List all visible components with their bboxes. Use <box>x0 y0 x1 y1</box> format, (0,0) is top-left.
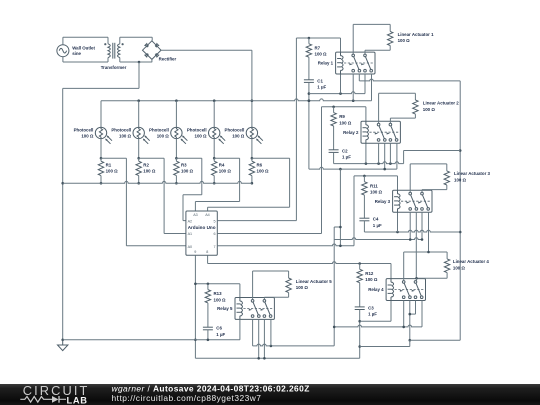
resistor Linear Actuator 1 <box>388 31 393 45</box>
wire c2 <box>415 212 417 278</box>
wire to right rail bottom <box>410 339 460 341</box>
svg-text:A0: A0 <box>188 245 193 249</box>
relay RLY1 <box>336 52 375 74</box>
junction <box>332 106 335 109</box>
wire A1 sense <box>163 158 165 233</box>
wire <box>139 157 164 159</box>
svg-text:100 Ω: 100 Ω <box>398 38 411 43</box>
svg-text:Photocell: Photocell <box>187 128 207 133</box>
wire <box>194 202 196 212</box>
wire coil5 top <box>239 284 241 298</box>
wire <box>289 158 291 207</box>
resistor R9 <box>331 113 336 126</box>
junction <box>251 99 254 102</box>
wire <box>352 24 354 54</box>
wire c3 <box>389 143 391 163</box>
wire <box>417 277 448 279</box>
svg-text:Relay 1: Relay 1 <box>318 61 334 66</box>
relay actuation link <box>344 62 374 64</box>
junction <box>175 182 178 185</box>
relay switch 1 <box>377 123 380 126</box>
wire <box>63 87 139 89</box>
relay switch 2 <box>263 300 266 303</box>
svg-text:Linear Actuator 2: Linear Actuator 2 <box>423 101 460 106</box>
wire <box>253 270 289 272</box>
junction <box>389 162 392 165</box>
wire <box>334 325 422 327</box>
junction <box>213 99 216 102</box>
svg-text:Arduino Uno: Arduino Uno <box>188 225 216 230</box>
svg-text:6: 6 <box>214 232 216 236</box>
junction <box>194 339 197 342</box>
svg-text:9: 9 <box>194 250 196 254</box>
svg-text:100 Ω: 100 Ω <box>219 169 232 174</box>
wire <box>416 278 418 280</box>
relay coil <box>365 121 367 125</box>
wire pin5 rail <box>295 38 297 221</box>
junction <box>358 262 361 265</box>
wire pin9 / relay5 left rail <box>194 255 196 358</box>
wire <box>107 37 109 44</box>
wire relay3 top rail <box>354 175 398 177</box>
wire c1 row <box>253 344 335 346</box>
wire <box>183 220 186 222</box>
junction <box>339 168 342 171</box>
wire coil4 top <box>390 264 392 279</box>
wire A0 sense <box>125 158 127 246</box>
wire <box>101 99 372 101</box>
wire <box>63 339 240 341</box>
wire <box>195 201 239 203</box>
junction <box>137 99 140 102</box>
wire <box>334 238 422 240</box>
wire pin7 <box>217 244 354 246</box>
wire <box>410 163 447 165</box>
svg-text:100 Ω: 100 Ω <box>157 134 170 139</box>
junction <box>137 182 140 185</box>
wire c2 <box>409 301 411 341</box>
relay actuation link <box>243 307 273 309</box>
wire <box>63 181 252 183</box>
wire <box>151 59 153 62</box>
resistor Linear Actuator 5 <box>286 278 291 293</box>
resistor R6 <box>249 161 254 175</box>
wire relay4 bottom rail <box>360 320 391 322</box>
junction <box>270 345 273 348</box>
wire <box>175 139 177 159</box>
wire c3 <box>415 301 417 315</box>
svg-text:Relay 3: Relay 3 <box>375 199 391 204</box>
junction <box>377 162 380 165</box>
junction <box>257 357 260 360</box>
wire <box>100 139 102 159</box>
wire <box>422 189 447 191</box>
wire <box>208 206 290 208</box>
wire coil1 top <box>340 38 342 52</box>
svg-text:R3: R3 <box>181 162 187 167</box>
svg-text:Photocell: Photocell <box>74 128 94 133</box>
wire <box>100 101 102 128</box>
wire <box>252 157 290 159</box>
svg-text:Linear Actuator 1: Linear Actuator 1 <box>398 32 435 37</box>
wire c1 <box>352 74 354 101</box>
wire jog <box>334 226 340 228</box>
junction <box>308 92 311 95</box>
svg-text:100 Ω: 100 Ω <box>181 169 194 174</box>
wire <box>63 61 108 63</box>
svg-text:Transformer: Transformer <box>101 65 127 70</box>
relay switch 2 <box>364 54 367 57</box>
wire to right rail <box>404 150 461 152</box>
svg-text:100 Ω: 100 Ω <box>143 169 156 174</box>
wire <box>213 139 215 159</box>
resistor R7 <box>306 44 311 57</box>
svg-text:Rectifier: Rectifier <box>159 57 177 62</box>
svg-text:100 Ω: 100 Ω <box>81 134 94 139</box>
wire coil3 top <box>397 176 399 190</box>
junction <box>459 231 462 234</box>
svg-text:sine: sine <box>72 51 81 56</box>
wire <box>363 195 365 218</box>
svg-text:R12: R12 <box>365 271 374 276</box>
svg-text:100 Ω: 100 Ω <box>119 134 132 139</box>
junction <box>409 339 412 342</box>
svg-text:R11: R11 <box>370 183 378 188</box>
junction <box>308 99 311 102</box>
relay actuation link <box>395 289 425 291</box>
wire c4 <box>371 74 373 101</box>
junction <box>339 245 342 248</box>
node <box>138 61 141 64</box>
wire <box>390 117 415 119</box>
junction <box>365 162 368 165</box>
junction <box>61 339 64 342</box>
wire coil2 top <box>365 107 367 122</box>
junction <box>363 175 366 178</box>
wire <box>363 221 365 232</box>
capacitor C3 <box>355 306 365 308</box>
wire <box>175 101 177 128</box>
junction <box>61 182 64 185</box>
resistor Linear Actuator 2 <box>413 100 418 114</box>
svg-text:C6: C6 <box>216 326 222 331</box>
wire c4 <box>428 212 430 252</box>
resistor R11 <box>362 182 367 195</box>
svg-text:100 Ω: 100 Ω <box>423 107 436 112</box>
wire right rail <box>459 81 461 340</box>
relay actuation link <box>369 131 399 133</box>
relay RLY2 <box>361 121 400 143</box>
svg-text:A4: A4 <box>205 213 210 217</box>
wire <box>389 24 391 31</box>
relay coil <box>340 52 342 56</box>
wire c2 <box>358 74 360 81</box>
wire <box>213 158 215 161</box>
wire <box>333 152 335 163</box>
relay switch 2 <box>389 123 392 126</box>
wire <box>62 37 64 45</box>
wire c2 to right rail <box>359 79 460 81</box>
wire <box>333 126 335 150</box>
wire <box>389 46 391 51</box>
svg-text:Wall Outlet: Wall Outlet <box>72 45 95 50</box>
junction <box>402 326 405 329</box>
wire <box>62 57 64 62</box>
resistor Linear Actuator 4 <box>444 259 449 273</box>
wire <box>138 101 140 128</box>
voltage source V1 Wall Outlet sine <box>57 45 69 57</box>
svg-text:100 Ω: 100 Ω <box>296 285 309 290</box>
svg-text:Relay 2: Relay 2 <box>343 130 359 135</box>
svg-text:R9: R9 <box>339 114 345 119</box>
svg-text:Photocell: Photocell <box>225 128 245 133</box>
wire c4 <box>421 301 423 327</box>
wire <box>100 176 102 184</box>
wire pin8 <box>207 255 209 263</box>
wire chain down <box>359 310 361 359</box>
wire mid supply rail <box>333 227 335 346</box>
wire <box>410 313 416 315</box>
wire <box>446 252 448 259</box>
svg-text:1 µF: 1 µF <box>216 332 225 337</box>
junction <box>409 238 412 241</box>
svg-text:Relay 5: Relay 5 <box>217 306 233 311</box>
junction <box>251 182 254 185</box>
wire pin6 <box>217 233 321 235</box>
capacitor C6 <box>203 326 213 328</box>
wire <box>107 58 109 62</box>
wire c3 <box>421 212 423 239</box>
svg-text:100 Ω: 100 Ω <box>315 52 328 57</box>
junction <box>358 320 361 323</box>
svg-text:R6: R6 <box>257 162 263 167</box>
junction <box>333 326 336 329</box>
wire <box>360 346 410 348</box>
wire <box>120 61 152 63</box>
junction <box>459 149 462 152</box>
svg-text:5: 5 <box>214 219 216 223</box>
wire pin6 rail <box>321 107 323 234</box>
wire relay1 top rail <box>296 37 340 39</box>
wire <box>100 158 102 161</box>
wire <box>389 118 391 123</box>
wire <box>409 164 411 192</box>
wire <box>446 185 448 190</box>
junction <box>358 345 361 348</box>
photocell PC2 <box>133 127 144 138</box>
svg-text:C2: C2 <box>342 148 348 153</box>
wire <box>414 114 416 118</box>
photocell PC1 <box>95 127 106 138</box>
wire <box>207 330 209 340</box>
junction <box>396 231 399 234</box>
wire <box>207 207 209 211</box>
wire <box>161 49 252 51</box>
transformer T1 <box>108 44 110 58</box>
svg-text:100 Ω: 100 Ω <box>214 297 227 302</box>
capacitor C1 <box>304 79 314 81</box>
svg-text:R7: R7 <box>315 45 321 50</box>
junction <box>383 168 386 171</box>
wire pin8 rail relay4 top <box>208 262 391 264</box>
capacitor C4 <box>359 217 369 219</box>
wire <box>404 251 447 253</box>
wire c4 <box>270 319 272 346</box>
wire <box>359 264 361 270</box>
svg-text:R13: R13 <box>214 291 223 296</box>
wire <box>126 245 185 247</box>
relay switch 2 <box>421 192 424 195</box>
wire <box>213 176 215 184</box>
wire <box>263 297 265 299</box>
wire c1 <box>403 301 405 327</box>
svg-text:1 µF: 1 µF <box>368 312 377 317</box>
relay RLY4 <box>386 279 425 301</box>
capacitor C2 <box>329 149 339 151</box>
wire coil5 bottom <box>239 319 241 339</box>
svg-text:A2: A2 <box>188 219 193 223</box>
svg-text:C1: C1 <box>317 78 323 83</box>
wire c4 <box>396 143 398 169</box>
wire c1 <box>409 212 411 239</box>
node cell5 <box>251 157 254 160</box>
wire <box>175 158 177 161</box>
wire relay5 top rail <box>195 283 240 285</box>
photocell PC4 <box>209 127 220 138</box>
svg-text:1 µF: 1 µF <box>342 155 351 160</box>
wire <box>308 57 310 80</box>
resistor R1 <box>98 161 103 175</box>
wire riser <box>409 340 411 346</box>
relay actuation link <box>401 200 431 202</box>
wire <box>138 139 140 159</box>
junction <box>352 99 355 102</box>
rectifier D1 bridge <box>143 41 162 60</box>
wire <box>207 284 209 290</box>
wire <box>175 176 177 184</box>
svg-text:100 Ω: 100 Ω <box>454 177 467 182</box>
wire <box>63 36 108 38</box>
svg-text:100 Ω: 100 Ω <box>370 190 383 195</box>
resistor R4 <box>212 161 217 175</box>
relay coil <box>239 298 241 302</box>
resistor R2 <box>136 161 141 175</box>
junction <box>213 182 216 185</box>
junction <box>421 238 424 241</box>
wire <box>182 195 184 221</box>
resistor Linear Actuator 3 <box>444 171 449 185</box>
ground symbol GND <box>58 340 68 351</box>
wire c2 <box>384 143 386 169</box>
wire <box>251 139 253 159</box>
wire <box>119 58 121 62</box>
wire <box>164 233 186 235</box>
wire <box>176 157 201 159</box>
wire coil3 bottom <box>397 212 399 232</box>
svg-text:C4: C4 <box>373 217 379 222</box>
relay RLY3 <box>393 190 432 212</box>
wire <box>138 176 140 184</box>
wire <box>414 93 416 100</box>
junction <box>263 357 266 360</box>
svg-text:LAB: LAB <box>67 395 88 405</box>
wire relay2 bottom rail <box>334 162 404 164</box>
wire c1 <box>252 319 254 346</box>
svg-text:Relay 4: Relay 4 <box>368 287 384 292</box>
junction <box>175 99 178 102</box>
relay switch 1 <box>402 281 405 284</box>
wire <box>403 252 405 281</box>
svg-text:Linear Actuator 3: Linear Actuator 3 <box>454 171 491 176</box>
junction <box>207 339 210 342</box>
wire jog up <box>403 151 405 164</box>
wire <box>207 303 209 327</box>
svg-text:Linear Actuator 5: Linear Actuator 5 <box>296 279 333 284</box>
svg-text:1 µF: 1 µF <box>317 85 326 90</box>
wire <box>239 158 241 201</box>
wire <box>214 157 239 159</box>
wire <box>309 167 397 169</box>
relay RLY5 <box>235 298 274 320</box>
wire <box>421 190 423 193</box>
svg-text:100 Ω: 100 Ω <box>365 277 378 282</box>
svg-text:100 Ω: 100 Ω <box>257 169 270 174</box>
svg-text:Linear Actuator 4: Linear Actuator 4 <box>453 259 490 264</box>
resistor R12 <box>357 269 362 282</box>
wire <box>201 158 203 195</box>
svg-text:R4: R4 <box>219 162 225 167</box>
junction <box>339 226 342 229</box>
wire coil2 bottom <box>365 143 367 163</box>
svg-text:http://circuitlab.com/cp88yget: http://circuitlab.com/cp88yget323w7 <box>112 393 262 403</box>
wire <box>379 92 416 94</box>
wire <box>353 23 390 25</box>
junction <box>339 92 342 95</box>
wire <box>251 50 253 127</box>
svg-text:8: 8 <box>206 250 208 254</box>
svg-text:100 Ω: 100 Ω <box>195 134 208 139</box>
junction <box>415 277 418 280</box>
wire <box>365 49 390 51</box>
wire <box>101 157 126 159</box>
photocell PC3 <box>171 127 182 138</box>
junction <box>207 283 210 286</box>
wire <box>333 107 335 113</box>
relay switch 1 <box>409 192 412 195</box>
svg-text:100 Ω: 100 Ω <box>232 134 245 139</box>
wire <box>251 158 253 161</box>
junction <box>308 37 311 40</box>
wire relay2 top rail <box>322 106 366 108</box>
wire <box>378 93 380 123</box>
relay coil <box>397 190 399 194</box>
wire <box>308 82 310 169</box>
node cell3 <box>175 157 178 160</box>
svg-text:1 µF: 1 µF <box>373 223 382 228</box>
wire <box>251 176 253 184</box>
wire <box>308 38 310 44</box>
wire coil4 bottom <box>390 301 392 322</box>
wire c3 <box>263 319 265 358</box>
wire pin7 rail <box>353 176 355 246</box>
relay coil <box>390 279 392 283</box>
wire <box>264 296 288 298</box>
junction <box>308 99 311 102</box>
wire c2 <box>258 319 260 358</box>
wire <box>364 50 366 54</box>
wire <box>119 37 121 44</box>
wire <box>288 293 290 298</box>
